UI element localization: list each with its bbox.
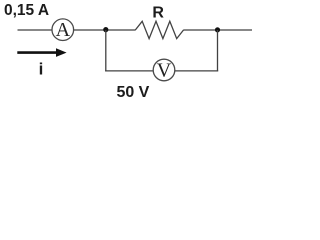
wire: ammeter to left node	[74, 29, 136, 31]
svg-text:V: V	[157, 60, 172, 82]
resistor R zigzag	[135, 21, 183, 38]
svg-text:i: i	[39, 60, 44, 79]
wire: voltmeter to right vertical	[175, 70, 218, 72]
wire: left vertical branch down	[105, 30, 107, 71]
node: right junction dot	[215, 27, 220, 32]
current arrow i	[17, 48, 66, 57]
ammeter U1 circle	[52, 19, 74, 41]
node: left junction dot	[103, 27, 108, 32]
wire: resistor to right node and right edge	[183, 29, 252, 31]
svg-text:50 V: 50 V	[116, 84, 149, 101]
svg-text:0,15 A: 0,15 A	[4, 2, 49, 19]
wire: right vertical branch up	[217, 30, 219, 71]
svg-text:A: A	[56, 19, 71, 41]
wire: bottom rail to voltmeter	[105, 70, 153, 72]
voltmeter U2 circle	[153, 59, 175, 81]
svg-text:R: R	[152, 5, 164, 22]
wire: left lead into ammeter	[18, 29, 53, 31]
